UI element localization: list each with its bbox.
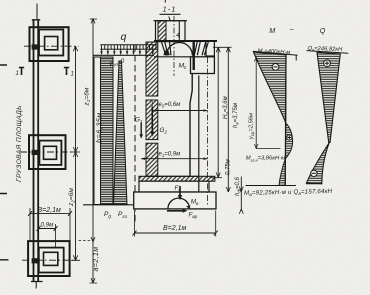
svg-text:Q: Q	[320, 26, 326, 35]
ground surface line	[93, 54, 154, 56]
force arrow Fv	[178, 186, 182, 200]
e1 dimension	[141, 152, 208, 161]
dimension B=2.1m left	[28, 207, 72, 241]
dimension line z chain	[71, 46, 80, 260]
force arrow G2	[150, 107, 154, 137]
svg-text:В=2,1м: В=2,1м	[163, 225, 186, 232]
svg-text:z1=6м: z1=6м	[84, 87, 91, 106]
e0 dimension	[152, 101, 207, 124]
pressure diagram Pg	[94, 57, 113, 205]
wall section hatched band	[146, 42, 158, 176]
svg-text:а=2,1м: а=2,1м	[93, 247, 100, 272]
column section 1-1	[154, 17, 188, 42]
load area outline top cluster	[30, 27, 69, 61]
left beam end	[162, 42, 172, 55]
foundation slab	[134, 192, 216, 209]
svg-text:0,9м: 0,9м	[41, 222, 55, 229]
dashed reference line	[134, 45, 136, 222]
roof beam bearing line	[154, 40, 217, 42]
Q diagram base line	[306, 183, 323, 185]
svg-text:уср=2,56м: уср=2,56м	[249, 113, 255, 140]
svg-text:4: 4	[176, 32, 180, 39]
section cut marks 1	[16, 67, 74, 78]
Q diagram top line	[307, 51, 349, 54]
foundation pedestal hatched	[139, 176, 215, 181]
lower column axis	[207, 57, 209, 205]
section title 1-1	[160, 0, 181, 14]
svg-text:М: М	[269, 26, 275, 35]
right beam end	[194, 42, 208, 55]
wall bottom line	[146, 175, 198, 177]
pressure diagram Pgz triangle	[114, 61, 128, 205]
M diagram lower right bulge	[286, 123, 293, 159]
force arrow G1	[139, 123, 143, 139]
dimension line a bottom	[0, 0, 1, 1]
svg-text:е0=0,6м: е0=0,6м	[159, 102, 181, 108]
Q diagram lower lobe	[307, 143, 330, 184]
M diagram base line	[246, 185, 297, 187]
svg-text:1: 1	[71, 72, 74, 78]
svg-text:Мзг,в=3,86кН·м: Мзг,в=3,86кН·м	[246, 156, 285, 163]
ycp dimension bracket	[254, 57, 280, 149]
M diagram plus circle	[287, 135, 292, 140]
svg-text:1-1: 1-1	[163, 5, 177, 14]
moment arc Mc	[166, 43, 192, 56]
dimension B=2.1m bottom	[133, 211, 218, 237]
margin tick marks	[0, 65, 9, 260]
svg-text:ГРУЗОВАЯ ПЛОЩАДЬ: ГРУЗОВАЯ ПЛОЩАДЬ	[16, 105, 23, 182]
right side dimension lines	[210, 47, 243, 214]
dimension line h	[79, 19, 97, 284]
M diagram upper lobe	[254, 52, 287, 123]
M diagram lower left lobe	[279, 159, 286, 186]
svg-text:z2=6м: z2=6м	[68, 188, 75, 207]
Q diagram plus circle	[324, 60, 331, 67]
svg-text:q: q	[121, 31, 127, 43]
diagrams base line	[83, 204, 134, 206]
M diagram top line	[253, 51, 298, 55]
dimension 0,9m left	[37, 222, 58, 248]
M diagram minus circle	[272, 64, 279, 71]
svg-text:hф=0,6: hф=0,6	[235, 176, 241, 196]
right bearing block	[206, 41, 214, 56]
force arrow Fvr	[167, 209, 188, 213]
corbel	[191, 57, 215, 74]
svg-text:Нн=3,6м: Нн=3,6м	[223, 96, 229, 119]
svg-text:hв=3,75м: hв=3,75м	[233, 103, 239, 128]
Q diagram upper lobe	[317, 52, 340, 142]
Q diagram minus circle	[311, 170, 317, 176]
svg-text:В=2,1м: В=2,1м	[38, 207, 61, 214]
centre line top cluster	[24, 45, 79, 47]
svg-text:1: 1	[16, 71, 19, 77]
distributed load q	[100, 31, 157, 55]
svg-text:0,75м: 0,75м	[226, 159, 232, 175]
wall outline right face	[190, 74, 192, 177]
load area outline middle cluster	[29, 135, 66, 169]
column joint bold line	[192, 42, 194, 71]
column elevation bars	[31, 4, 43, 289]
column inner face line	[198, 76, 200, 193]
centre line middle cluster	[20, 151, 77, 153]
upper column axis	[173, 16, 175, 76]
svg-text:е1=0,9м: е1=0,9м	[159, 152, 181, 158]
centre line bottom cluster	[22, 259, 77, 261]
load area outline bottom cluster	[28, 241, 70, 276]
M diagram axis	[284, 55, 287, 186]
moment arc Mv	[168, 198, 191, 209]
